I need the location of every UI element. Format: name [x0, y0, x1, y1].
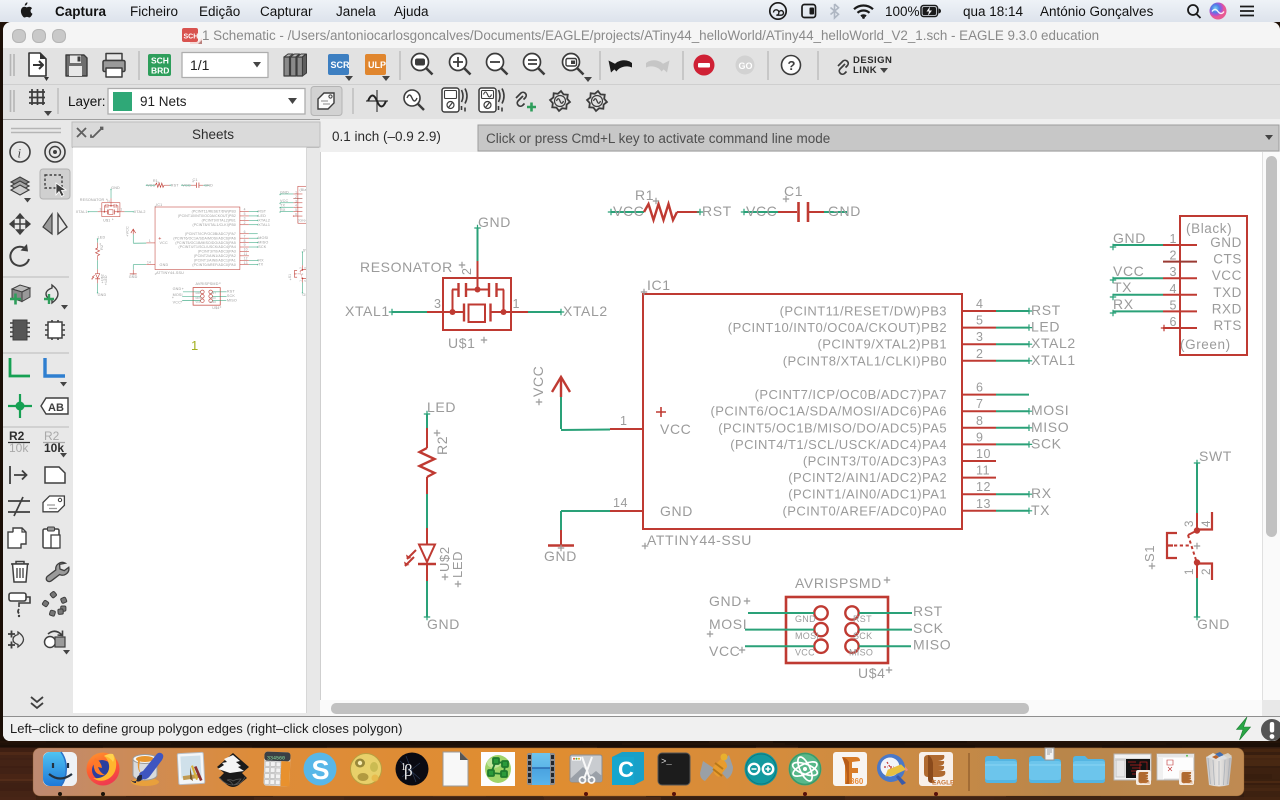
dock: sphere app: [351, 754, 382, 785]
IC1 pin 14 GND: [610, 496, 643, 511]
svg-text:5: 5: [1169, 298, 1177, 312]
wire SWT to S1: [1196, 463, 1198, 513]
dock: Calculator: [263, 752, 290, 787]
svg-text:MISO: MISO: [913, 637, 951, 653]
net XTAL2: [528, 303, 608, 319]
dock: image edit app: [177, 752, 205, 784]
wire LED to GND: [426, 581, 428, 617]
svg-text:1: 1: [1169, 232, 1177, 246]
svg-text:(PCINT3/T0/ADC3)PA3: (PCINT3/T0/ADC3)PA3: [803, 454, 947, 469]
dock running indicator dots: [58, 792, 938, 796]
wire VCC to IC1 pin 1: [561, 397, 610, 430]
IC1 pin 1 VCC: [610, 414, 643, 429]
svg-text:8: 8: [976, 414, 984, 428]
svg-text:9: 9: [976, 430, 984, 444]
resistor R2: [420, 428, 451, 494]
net from IC1 pin 9 SCK: [996, 435, 1062, 451]
ground symbol at IC1: [544, 530, 577, 564]
svg-text:MOSI: MOSI: [795, 631, 819, 641]
svg-text:(PCINT2/AIN1/ADC2)PA2: (PCINT2/AIN1/ADC2)PA2: [788, 470, 947, 485]
net from IC1 pin 12 RX: [996, 485, 1052, 501]
dock: Arduino IDE: [745, 753, 778, 786]
net XTAL1: [345, 303, 427, 319]
supply symbol VCC: [530, 366, 570, 406]
net from IC1 pin 6: [996, 394, 1029, 396]
dock: minimized EAGLE white window: [1157, 754, 1194, 785]
serial pin 2 CTS: [1163, 249, 1242, 267]
wire S1 to GND: [1196, 578, 1198, 617]
svg-text:2: 2: [976, 347, 984, 361]
net MISO from U$4: [859, 637, 951, 653]
svg-text:RST: RST: [853, 614, 872, 624]
svg-text:7: 7: [976, 397, 984, 411]
svg-text:MOSI: MOSI: [709, 616, 747, 632]
net from IC1 pin 4 RST: [996, 302, 1061, 318]
IC1 pin 4: [780, 297, 996, 319]
svg-text:3: 3: [976, 330, 984, 344]
svg-text:5: 5: [976, 314, 984, 328]
dock: folder 1: [985, 756, 1017, 783]
svg-text:GND: GND: [1113, 230, 1146, 246]
dock: Paintbrush app: [131, 753, 163, 786]
wire LED to R2: [426, 414, 428, 428]
svg-text:3: 3: [434, 297, 442, 311]
wire IC1 pin 14 to GND: [561, 511, 610, 530]
svg-text:4: 4: [1201, 520, 1213, 527]
switch S1: [1142, 512, 1213, 580]
LED U$2: [404, 528, 465, 587]
dock: Firefox: [87, 753, 120, 786]
svg-text:VCC: VCC: [1113, 263, 1144, 279]
svg-text:MISO: MISO: [849, 648, 873, 658]
svg-text:GND: GND: [1210, 235, 1242, 250]
connector AVRISPSMD U$4: [786, 575, 892, 681]
svg-text:1: 1: [620, 414, 628, 428]
svg-text:C1: C1: [784, 183, 803, 199]
net GND to U$4: [709, 593, 814, 613]
net RST from U$4: [859, 603, 943, 619]
svg-text:IC1: IC1: [647, 277, 671, 293]
net from IC1 pin 5 LED: [996, 319, 1060, 335]
svg-text:LED: LED: [450, 551, 465, 578]
dock: QElectroTech: [877, 754, 909, 785]
IC1 pin 11: [788, 464, 996, 486]
svg-text:VCC: VCC: [746, 203, 777, 219]
svg-text:RX: RX: [1113, 296, 1134, 312]
svg-text:LED: LED: [427, 399, 456, 415]
svg-text:RST: RST: [702, 203, 732, 219]
svg-text:2: 2: [1201, 568, 1213, 575]
net VCC to serial pin3: [1110, 263, 1163, 283]
svg-text:AVRISPSMD: AVRISPSMD: [795, 575, 882, 591]
svg-text:VCC: VCC: [795, 648, 815, 658]
svg-text:MISO: MISO: [1031, 419, 1069, 435]
dock: Finder: [43, 752, 77, 786]
svg-text:RST: RST: [913, 603, 943, 619]
dock: trash: [1206, 752, 1232, 787]
svg-text:MOSI: MOSI: [1031, 402, 1069, 418]
svg-text:RXD: RXD: [1212, 301, 1242, 316]
net GND at resonator pin2: [474, 214, 511, 261]
svg-text:2: 2: [1169, 249, 1177, 263]
dock: Terminal: [658, 753, 690, 785]
svg-text:XTAL1: XTAL1: [345, 303, 390, 319]
svg-text:6: 6: [976, 381, 984, 395]
svg-text:4: 4: [1169, 282, 1177, 296]
net VCC to U$4: [709, 643, 814, 659]
net VCC at R1: [613, 203, 644, 219]
dock: Atom: [789, 753, 822, 786]
IC1 pin 2: [783, 347, 996, 369]
net from IC1 pin 7 MOSI: [996, 402, 1069, 418]
svg-text:2: 2: [460, 267, 474, 275]
svg-text:GND: GND: [660, 503, 693, 519]
dock: Skype: [304, 753, 337, 786]
svg-text:RTS: RTS: [1213, 318, 1242, 333]
dock separator: [968, 753, 970, 791]
serial pin 1 GND: [1163, 232, 1242, 250]
svg-text:TX: TX: [1031, 502, 1050, 518]
svg-text:XTAL1: XTAL1: [1031, 352, 1076, 368]
svg-text:GND: GND: [427, 616, 460, 632]
svg-text:(Black): (Black): [1186, 221, 1232, 236]
svg-text:VCC: VCC: [660, 421, 691, 437]
svg-text:6: 6: [1169, 315, 1177, 329]
svg-text:(PCINT1/AIN0/ADC1)PA1: (PCINT1/AIN0/ADC1)PA1: [788, 487, 947, 502]
svg-text:GND: GND: [544, 548, 577, 564]
dock: EAGLE: [919, 752, 955, 787]
svg-text:GND: GND: [1197, 616, 1230, 632]
dock: Inkscape: [217, 753, 249, 787]
svg-text:U$1: U$1: [448, 335, 475, 351]
svg-text:SCK: SCK: [853, 631, 872, 641]
svg-text:VCC: VCC: [1212, 268, 1242, 283]
serial pin 6 RTS: [1161, 315, 1242, 333]
svg-text:13: 13: [976, 497, 991, 511]
net from IC1 pin 3 XTAL2: [996, 335, 1076, 351]
IC1 pin 7: [711, 397, 996, 419]
net from IC1 pin 13 TX: [996, 502, 1050, 518]
svg-text:SCK: SCK: [913, 620, 944, 636]
svg-text:XTAL2: XTAL2: [1031, 335, 1076, 351]
dock: Fusion 360: [833, 752, 867, 786]
net from IC1 pin 2 XTAL1: [996, 352, 1076, 368]
net label GND below LED: [424, 614, 460, 632]
svg-text:RX: RX: [1031, 485, 1052, 501]
IC1 pin 5: [728, 314, 996, 336]
serial pin 4 TXD: [1163, 282, 1242, 300]
svg-text:VCC: VCC: [530, 366, 546, 397]
svg-text:4: 4: [976, 297, 984, 311]
serial pin 5 RXD: [1163, 298, 1242, 316]
IC1 pin 12: [788, 480, 996, 502]
net label GND at C1: [828, 203, 861, 219]
svg-text:3: 3: [1184, 520, 1196, 527]
svg-text:S1: S1: [1142, 545, 1157, 562]
svg-text:RESONATOR: RESONATOR: [360, 259, 453, 275]
svg-text:(PCINT4/T1/SCL/USCK/ADC4)PA4: (PCINT4/T1/SCL/USCK/ADC4)PA4: [730, 437, 947, 452]
net MOSI to U$4: [707, 616, 814, 637]
svg-text:GND: GND: [828, 203, 861, 219]
serial pin 3 VCC: [1163, 265, 1242, 283]
svg-text:SWT: SWT: [1199, 448, 1232, 464]
IC1 pin 10: [803, 447, 996, 469]
resistor R1: [608, 187, 699, 220]
dock: screenshot tool (Captura): [570, 755, 602, 783]
svg-text:GND: GND: [795, 614, 816, 624]
svg-text:(PCINT10/INT0/OC0A/CKOUT)PB2: (PCINT10/INT0/OC0A/CKOUT)PB2: [728, 320, 947, 335]
net RX to serial pin5: [1110, 296, 1163, 316]
net TX to serial pin4: [1110, 279, 1163, 300]
svg-text:12: 12: [976, 480, 991, 494]
IC1 pin 6: [755, 381, 996, 403]
op-amp: IC ATTINY44-SSU IC1 box: [641, 277, 962, 549]
IC1 pin 13: [782, 497, 996, 519]
svg-text:(PCINT8/XTAL1/CLKI)PB0: (PCINT8/XTAL1/CLKI)PB0: [783, 353, 947, 368]
dock: graph tool: [481, 752, 515, 786]
svg-text:U$4: U$4: [858, 665, 885, 681]
svg-text:TXD: TXD: [1213, 285, 1242, 300]
svg-text:1: 1: [513, 297, 521, 311]
svg-text:R1: R1: [635, 187, 654, 203]
svg-text:VCC: VCC: [709, 643, 740, 659]
svg-text:11: 11: [976, 464, 990, 478]
dock: FreeCAD: [700, 754, 733, 782]
svg-text:1: 1: [191, 338, 198, 353]
svg-text:SCK: SCK: [1031, 435, 1062, 451]
net label LED: [424, 399, 456, 417]
capacitor C1: [741, 183, 847, 222]
svg-text:XTAL2: XTAL2: [563, 303, 608, 319]
IC1 pin 9: [730, 430, 996, 452]
resonator U$1: [360, 259, 528, 351]
dock: LibreOffice: [443, 752, 468, 786]
dock: Cura: [612, 752, 644, 785]
svg-text:(PCINT0/AREF/ADC0)PA0: (PCINT0/AREF/ADC0)PA0: [782, 503, 947, 518]
svg-text:(Green): (Green): [1180, 337, 1231, 352]
net from IC1 pin 8 MISO: [996, 419, 1069, 435]
dock: minimized EAGLE board window: [1114, 754, 1151, 785]
svg-text:GND: GND: [709, 593, 742, 609]
net GND to serial pin1: [1110, 230, 1163, 250]
svg-text:RST: RST: [1031, 302, 1061, 318]
svg-text:(PCINT9/XTAL2)PB1: (PCINT9/XTAL2)PB1: [818, 337, 948, 352]
net label RST at R1: [697, 203, 732, 219]
connector FTDI serial (Black/Green): [1180, 216, 1247, 355]
net SCK from U$4: [859, 620, 944, 636]
sheet preview thumbnail: [76, 178, 316, 310]
svg-text:14: 14: [613, 496, 628, 510]
IC1 pin 3: [818, 330, 997, 352]
dock: folder 2 with document: [1029, 748, 1061, 783]
svg-text:GND: GND: [478, 214, 511, 230]
svg-text:TX: TX: [1113, 279, 1132, 295]
svg-text:ATTINY44-SSU: ATTINY44-SSU: [647, 532, 752, 548]
svg-text:VCC: VCC: [613, 203, 644, 219]
svg-text:1: 1: [1184, 568, 1196, 575]
svg-text:LED: LED: [1031, 319, 1060, 335]
net label GND below S1: [1194, 614, 1230, 632]
svg-text:(PCINT5/OC1B/MISO/DO/ADC5)PA5: (PCINT5/OC1B/MISO/DO/ADC5)PA5: [718, 420, 947, 435]
dock: video app: [527, 753, 555, 785]
wire R2 to LED U$2: [426, 494, 428, 528]
dock: folder 3: [1073, 756, 1105, 783]
svg-text:3: 3: [1169, 265, 1177, 279]
svg-text:10: 10: [976, 447, 991, 461]
net VCC at C1: [746, 203, 777, 219]
net label SWT: [1194, 448, 1232, 466]
dock: Processing: [396, 753, 429, 786]
svg-text:(PCINT11/RESET/DW)PB3: (PCINT11/RESET/DW)PB3: [780, 304, 947, 319]
svg-text:CTS: CTS: [1213, 252, 1242, 267]
svg-text:R2: R2: [434, 436, 450, 455]
svg-text:(PCINT7/ICP/OC0B/ADC7)PA7: (PCINT7/ICP/OC0B/ADC7)PA7: [755, 387, 947, 402]
IC1 pin 8: [718, 414, 996, 436]
svg-text:(PCINT6/OC1A/SDA/MOSI/ADC6)PA6: (PCINT6/OC1A/SDA/MOSI/ADC6)PA6: [711, 404, 947, 419]
